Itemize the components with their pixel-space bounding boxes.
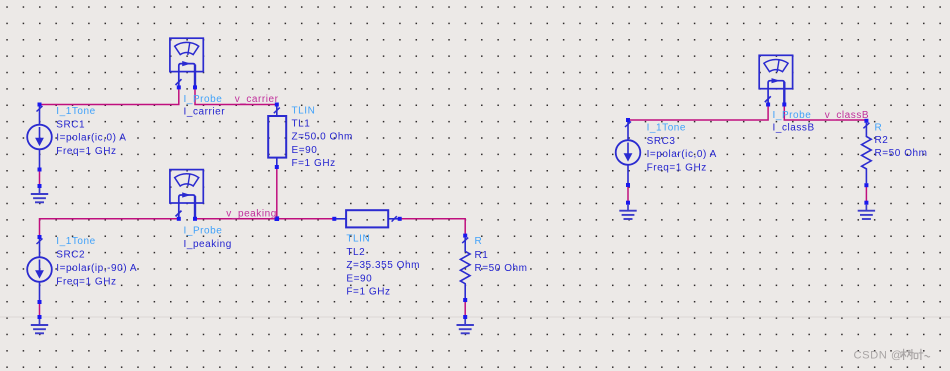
svg-text:SRC2: SRC2 [56,250,85,261]
wire: net v_peaking, probe I_peaking pin2 to TL2 pin [195,218,334,220]
svg-text:R: R [875,122,883,133]
wire: net v_classB, probe I_classB pin2 down and right to R2 [784,105,866,120]
svg-text:R=50 Ohm: R=50 Ohm [475,263,528,274]
node junction at v_peaking / TL1 [275,216,280,221]
svg-text:v_peaking: v_peaking [226,208,277,219]
probe I_peaking labels [184,226,232,250]
SRC2 labels [56,236,137,288]
wire: TL1 pin2 down to net v_peaking [276,168,278,219]
current source SRC2 [27,235,52,304]
wire: net v_peaking, SRC2 riser and run to probe I_peaking pin1 [40,219,179,237]
ground under R1 [457,315,474,333]
svg-text:R: R [475,236,483,247]
svg-text:R1: R1 [475,250,489,261]
current probe I_peaking [170,170,203,221]
SRC1 labels [56,106,126,157]
current probe I_carrier (ammeter U-meter symbol) [170,38,203,89]
SRC3 labels [647,123,717,174]
R1 labels [475,236,528,274]
svg-text:TLIN: TLIN [292,106,316,117]
svg-text:F=1 GHz: F=1 GHz [292,158,336,169]
svg-text:I=polar(ic,0) A: I=polar(ic,0) A [56,133,126,144]
transmission line TL1 (vertical) [268,103,286,170]
ground under SRC3 [619,201,636,219]
svg-text:Freq=1 GHz: Freq=1 GHz [56,277,116,288]
R2 labels [875,122,928,159]
ground under SRC1 [31,184,48,202]
svg-text:TLIN: TLIN [346,234,370,245]
ground under SRC2 [31,315,48,333]
svg-text:E=90: E=90 [292,145,318,156]
svg-text:SRC3: SRC3 [647,136,676,147]
svg-text:I_classB: I_classB [773,123,815,134]
wire: net v_carrier, SRC1 to probe I_carrier pin1 [40,88,179,105]
svg-text:I_1Tone: I_1Tone [647,123,686,134]
wire: R1 bottom pin to ground [464,300,466,317]
ground under R2 [858,201,875,219]
wire: net v_carrier, probe I_carrier pin2 down and right to TL1 [195,88,277,105]
svg-text:R2: R2 [875,135,889,146]
svg-text:Z=50.0 Ohm: Z=50.0 Ohm [292,132,353,143]
svg-text:v_carrier: v_carrier [235,94,279,105]
TL1 labels [292,106,353,169]
current source SRC3 [616,118,641,187]
wire: net v_classB, SRC3 to probe I_classB pin1 [628,105,768,120]
svg-text:SRC1: SRC1 [56,119,85,130]
wire: SRC3 bottom pin to ground [627,186,629,203]
wire: R2 bottom pin to ground [865,185,867,203]
svg-text:Freq=1 GHz: Freq=1 GHz [56,146,116,157]
resistor R1 [460,234,470,302]
current source SRC1 [27,103,52,172]
svg-text:CSDN @: CSDN @ [854,349,903,361]
probe I_carrier labels [184,94,226,118]
svg-text:Z=35.355 Ohm: Z=35.355 Ohm [346,260,420,271]
svg-text:E=90: E=90 [346,273,372,284]
transmission line TL2 (horizontal) [332,210,401,227]
svg-text:I_carrier: I_carrier [184,107,226,118]
svg-text:I=polar(ip,-90) A: I=polar(ip,-90) A [56,263,137,274]
wire: SRC2 bottom pin to ground [39,302,41,318]
svg-text:v_classB: v_classB [825,110,869,121]
svg-text:Freq=1 GHz: Freq=1 GHz [647,162,707,173]
probe I_classB labels [773,110,815,134]
wire: SRC1 bottom pin to ground [39,169,41,186]
svg-text:I_peaking: I_peaking [184,239,232,250]
svg-text:I_Probe: I_Probe [184,94,223,105]
svg-text:I_Probe: I_Probe [773,110,812,121]
current probe I_classB [759,55,792,106]
svg-text:R=50 Ohm: R=50 Ohm [875,148,928,159]
TL2 labels [346,234,420,298]
svg-text:I_1Tone: I_1Tone [56,236,95,247]
resistor R2 [862,119,872,187]
svg-text:I_1Tone: I_1Tone [56,106,95,117]
svg-text:TL2: TL2 [346,247,365,258]
svg-text:F=1 GHz: F=1 GHz [346,287,390,298]
watermark CSDN @shuye~ [854,349,930,362]
svg-text:TL1: TL1 [292,119,311,130]
wire: net v_peaking, TL2 to R1 corner [400,219,466,236]
svg-text:I=polar(ic,0) A: I=polar(ic,0) A [647,149,717,160]
svg-text:I_Probe: I_Probe [184,226,223,237]
